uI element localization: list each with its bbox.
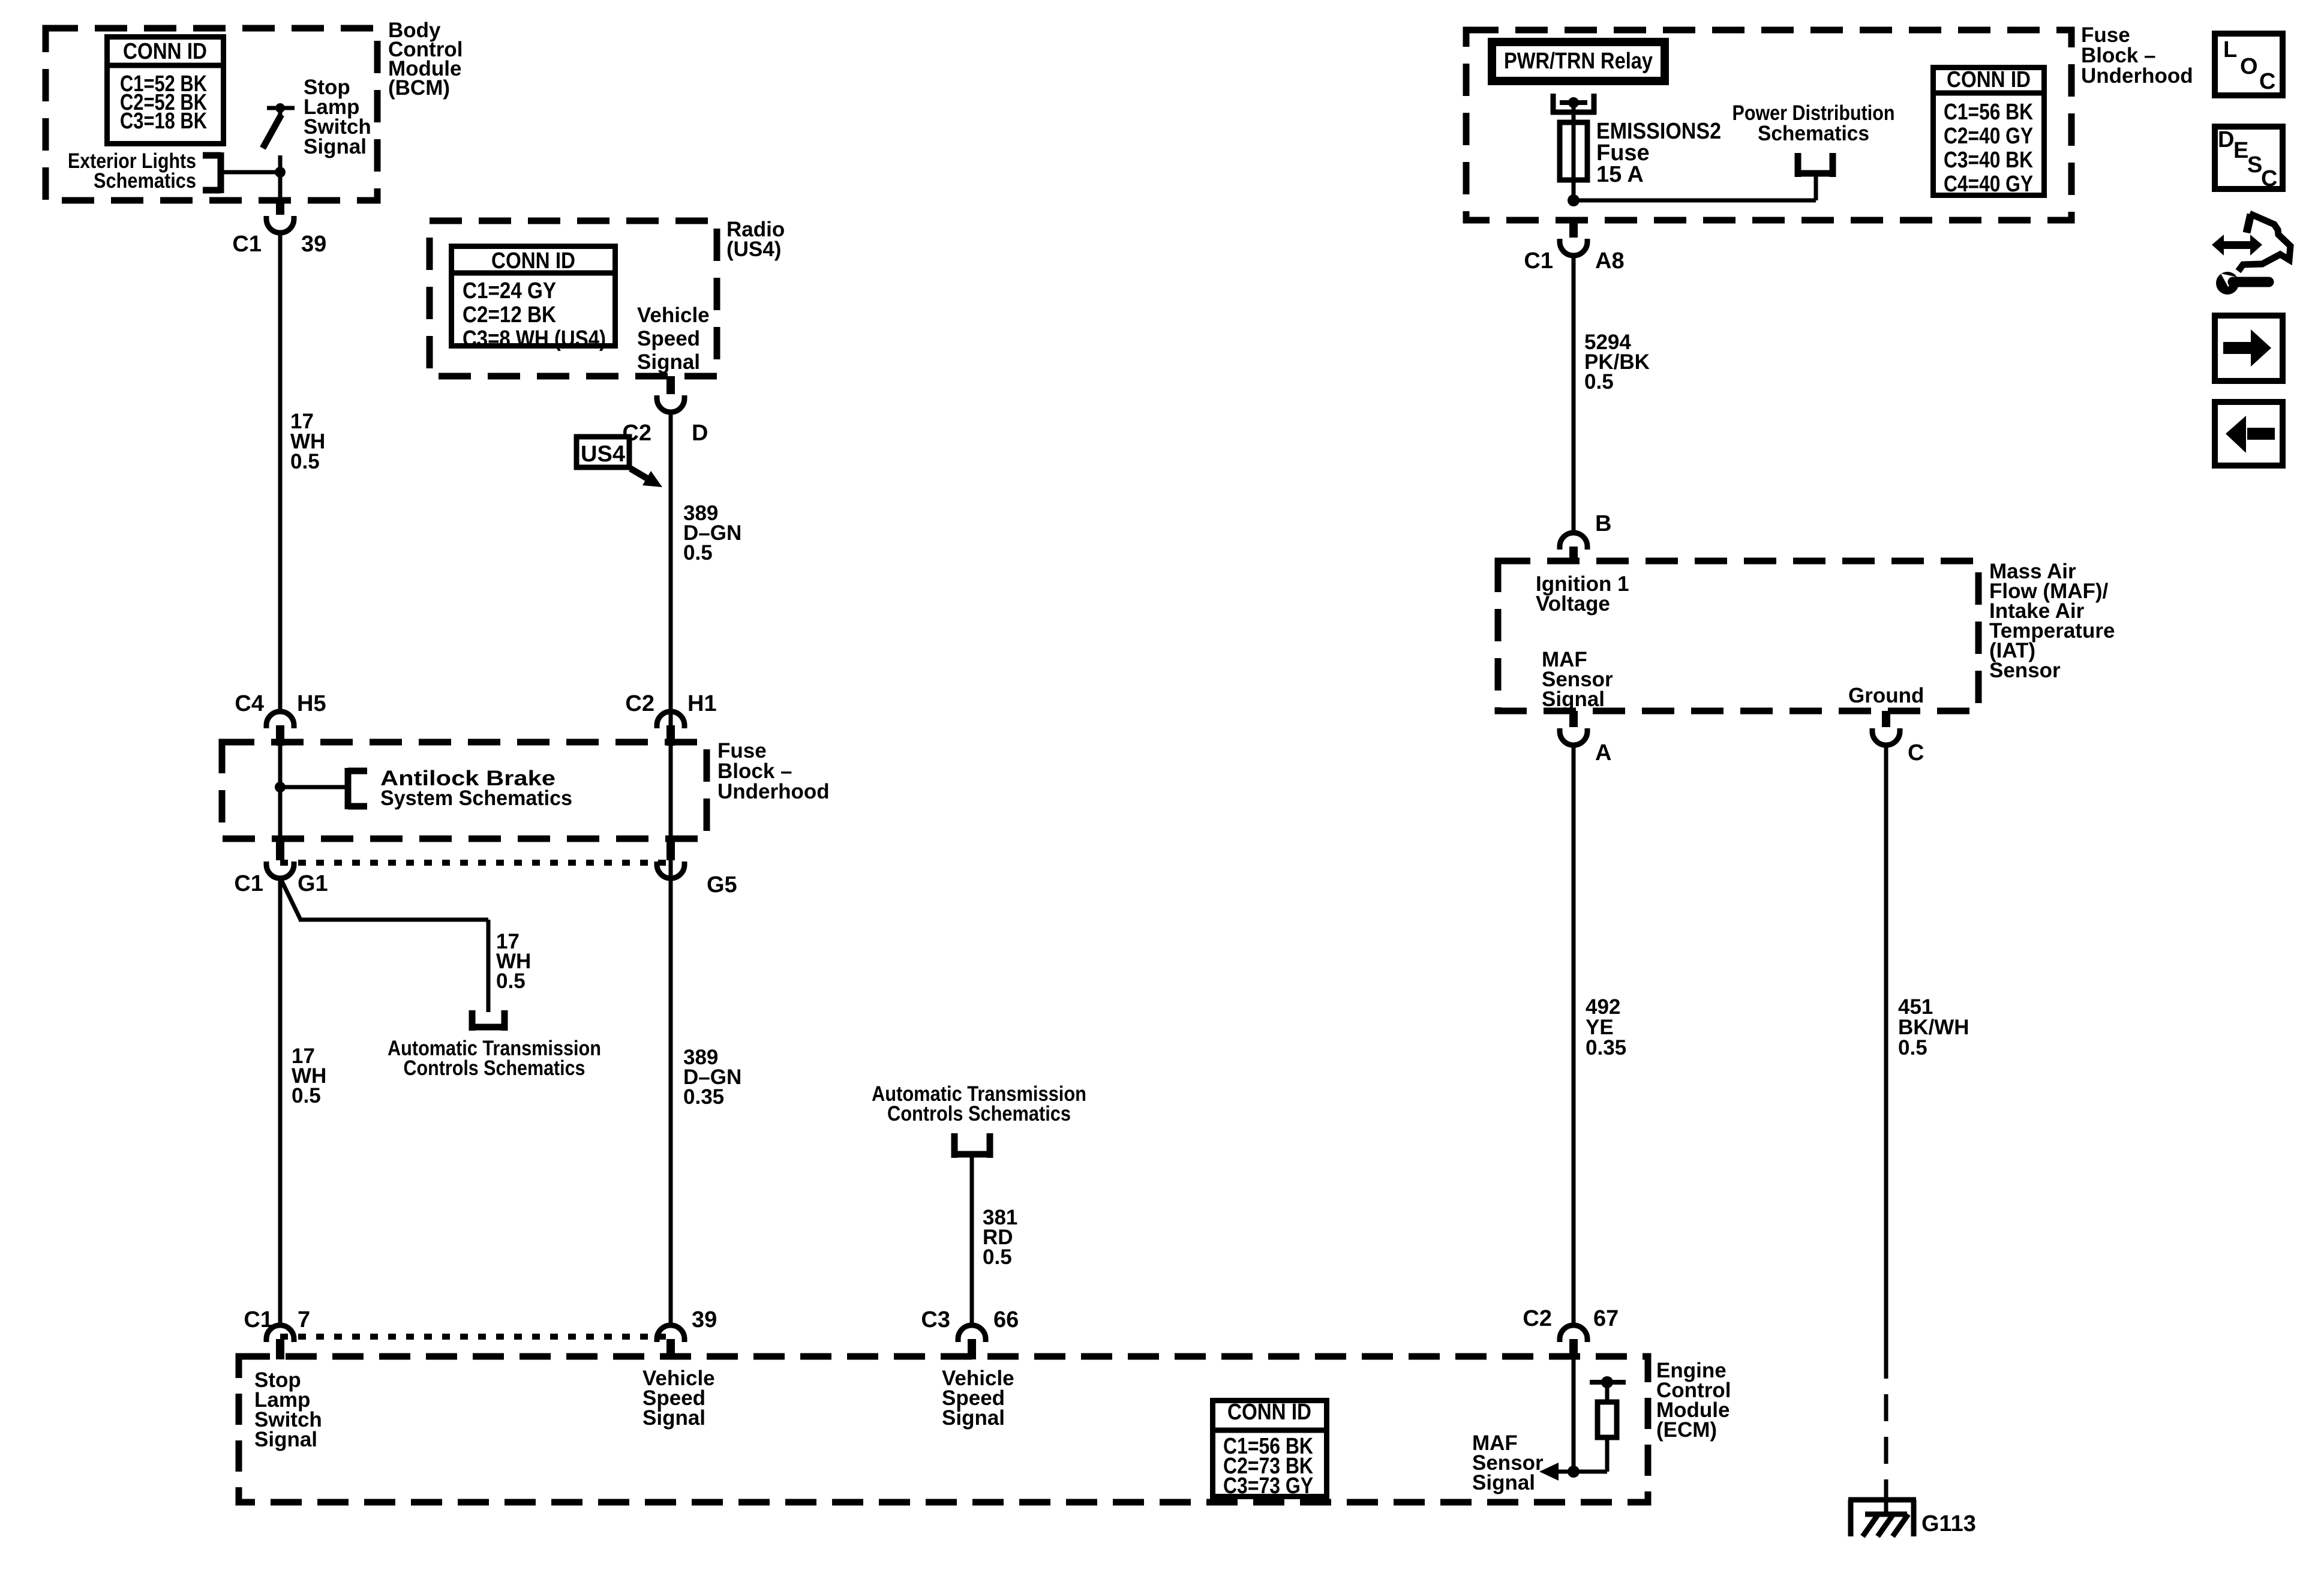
svg-text:S: S — [2247, 152, 2262, 178]
svg-text:C4=40 GY: C4=40 GY — [1944, 172, 2033, 197]
svg-text:Speed: Speed — [637, 327, 700, 350]
svg-text:0.35: 0.35 — [1586, 1036, 1626, 1059]
svg-text:C1: C1 — [1524, 248, 1553, 274]
svg-text:C1=56 BK: C1=56 BK — [1944, 100, 2033, 125]
svg-text:Signal: Signal — [1472, 1471, 1535, 1494]
svg-text:CONN ID: CONN ID — [1947, 67, 2031, 92]
svg-text:7: 7 — [298, 1307, 310, 1332]
svg-text:C1: C1 — [244, 1307, 273, 1332]
svg-text:Signal: Signal — [1542, 688, 1605, 711]
svg-text:A: A — [1595, 740, 1611, 766]
svg-text:A8: A8 — [1595, 248, 1625, 274]
svg-text:C: C — [1908, 740, 1924, 766]
svg-text:C2: C2 — [625, 691, 654, 716]
svg-text:(BCM): (BCM) — [388, 76, 450, 100]
svg-text:C3=40 BK: C3=40 BK — [1944, 148, 2033, 173]
svg-text:C2=40 GY: C2=40 GY — [1944, 124, 2033, 149]
svg-text:C1: C1 — [232, 232, 262, 257]
svg-text:C2: C2 — [1523, 1306, 1552, 1331]
svg-text:Voltage: Voltage — [1536, 592, 1610, 616]
svg-text:39: 39 — [692, 1307, 717, 1332]
svg-text:H1: H1 — [687, 691, 717, 716]
svg-text:System Schematics: System Schematics — [380, 786, 572, 810]
svg-text:Schematics: Schematics — [94, 169, 196, 193]
svg-text:C: C — [2259, 69, 2275, 94]
svg-text:C3: C3 — [921, 1307, 950, 1332]
svg-text:H5: H5 — [297, 691, 326, 716]
svg-text:C3=8 WH (US4): C3=8 WH (US4) — [463, 326, 606, 352]
svg-text:Controls Schematics: Controls Schematics — [404, 1056, 585, 1080]
svg-text:G113: G113 — [1921, 1511, 1976, 1536]
svg-text:C1=24 GY: C1=24 GY — [463, 278, 556, 304]
svg-text:CONN ID: CONN ID — [1227, 1400, 1311, 1425]
svg-text:Underhood: Underhood — [717, 780, 830, 803]
svg-text:C1: C1 — [234, 871, 263, 896]
svg-text:(ECM): (ECM) — [1656, 1418, 1717, 1442]
svg-text:D: D — [2218, 127, 2234, 152]
svg-text:Controls Schematics: Controls Schematics — [887, 1102, 1071, 1125]
svg-text:39: 39 — [301, 232, 326, 257]
svg-text:C3=18 BK: C3=18 BK — [120, 109, 207, 134]
svg-text:Underhood: Underhood — [2081, 64, 2193, 88]
svg-text:E: E — [2233, 138, 2248, 163]
svg-text:C4: C4 — [235, 691, 264, 716]
svg-text:US4: US4 — [581, 442, 625, 467]
svg-text:Vehicle: Vehicle — [637, 304, 710, 327]
svg-text:15 A: 15 A — [1596, 162, 1644, 187]
svg-text:Ground: Ground — [1848, 684, 1924, 707]
svg-text:C3=73 GY: C3=73 GY — [1223, 1473, 1313, 1499]
svg-text:0.5: 0.5 — [496, 969, 526, 993]
svg-text:0.5: 0.5 — [1898, 1036, 1927, 1059]
svg-text:Signal: Signal — [642, 1406, 705, 1430]
svg-text:0.5: 0.5 — [1584, 370, 1614, 394]
svg-text:Signal: Signal — [254, 1428, 317, 1451]
svg-text:0.35: 0.35 — [683, 1085, 724, 1109]
svg-text:C: C — [2261, 166, 2277, 191]
svg-text:O: O — [2240, 54, 2258, 79]
svg-text:D: D — [692, 421, 708, 446]
svg-text:66: 66 — [993, 1307, 1019, 1332]
svg-text:Signal: Signal — [304, 135, 367, 158]
svg-text:C2=12 BK: C2=12 BK — [463, 302, 556, 328]
svg-text:0.5: 0.5 — [290, 450, 320, 473]
svg-text:0.5: 0.5 — [292, 1084, 321, 1107]
svg-text:0.5: 0.5 — [983, 1245, 1012, 1269]
svg-text:B: B — [1595, 511, 1611, 536]
svg-text:Sensor: Sensor — [1989, 659, 2061, 682]
svg-text:G1: G1 — [298, 871, 328, 896]
svg-text:67: 67 — [1593, 1306, 1619, 1331]
svg-text:G5: G5 — [707, 872, 737, 897]
svg-text:CONN ID: CONN ID — [491, 248, 575, 274]
svg-text:L: L — [2223, 37, 2237, 62]
svg-text:0.5: 0.5 — [683, 541, 713, 565]
svg-text:Schematics: Schematics — [1758, 122, 1869, 145]
svg-text:CONN ID: CONN ID — [123, 39, 207, 64]
svg-text:(US4): (US4) — [726, 238, 781, 261]
svg-text:Signal: Signal — [637, 350, 700, 374]
svg-text:Signal: Signal — [942, 1406, 1005, 1430]
svg-text:PWR/TRN Relay: PWR/TRN Relay — [1504, 49, 1653, 74]
